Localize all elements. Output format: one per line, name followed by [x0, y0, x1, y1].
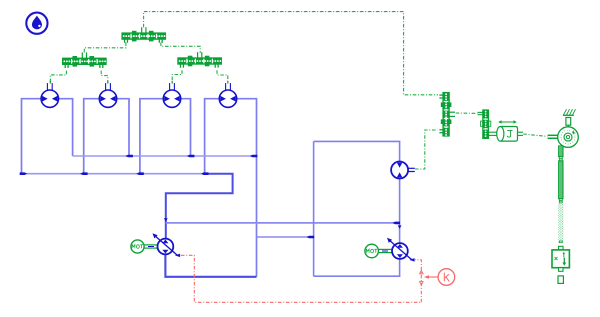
- rope end joint: [559, 241, 562, 243]
- junction arrow upper bus end at M4 drop: [250, 155, 258, 158]
- shaft link: GB2 left output to motor M1: [50, 71, 66, 84]
- wire: lower bus to pump P1 inlet staircase: [166, 174, 233, 239]
- hydraulic motor M4: [219, 83, 236, 107]
- wire: motor M2 left port to lower bus: [84, 99, 100, 174]
- gear reducer GB5: [478, 110, 491, 138]
- signal wire: junction riser to pump P2 control: [415, 260, 421, 303]
- junction arrow at lower bus start: [20, 172, 28, 175]
- shaft link: GB3 right output to motor M4: [217, 70, 228, 83]
- wire: motor M3 left port to lower bus: [140, 99, 163, 174]
- junction arrow M2 left on lower bus: [80, 172, 88, 175]
- wire: motor M2 right port to upper bus: [117, 99, 129, 156]
- shaft link: GB2 right output to motor M2: [101, 71, 108, 84]
- flow arrow above pump P1: [164, 218, 168, 222]
- wire: right loop top edge: [314, 141, 400, 161]
- flow arrow above pump P2: [398, 225, 402, 229]
- junction arrow supply line at loop right edge: [393, 222, 401, 225]
- shaft link: GB1 left output to GB2 input: [84, 42, 126, 53]
- signal arrow into junction: [424, 275, 429, 279]
- junction arrow M3 left on lower bus: [136, 172, 144, 175]
- hydraulic motor M2: [99, 83, 116, 107]
- shaft stub above motor M1: [49, 81, 51, 84]
- gain block K1: [438, 269, 455, 286]
- wire: upper bus: [73, 155, 257, 157]
- prime mover MOT2: [365, 244, 392, 258]
- signal split arrow down: [420, 282, 424, 285]
- variable displacement pump P1: [153, 233, 181, 257]
- wire: motor M1 right port to upper bus: [59, 99, 73, 156]
- wire: cross link to right loop left edge: [257, 236, 314, 238]
- ceiling anchor for winch: [563, 109, 576, 127]
- shaft stub above motor M3: [171, 81, 173, 84]
- signal wire: pump P1 control to bottom run: [181, 255, 421, 302]
- junction arrow M2 right on upper bus: [125, 155, 132, 158]
- wire: lower bus: [22, 173, 206, 175]
- shaft link: J1 to winch drum W1: [523, 134, 547, 136]
- wire: pump P1 supply long line to right loop: [166, 222, 400, 224]
- wire: motor M1 left port to lower bus: [22, 99, 42, 174]
- wire: motor M3 right port to upper bus: [181, 99, 191, 156]
- signal split arrow up: [420, 270, 424, 273]
- shaft stub above motor M4: [227, 81, 229, 84]
- wire: pump P1 outlet bottom run: [165, 254, 256, 277]
- gearbox GB4 (vertical, right side): [439, 93, 455, 137]
- wire: right loop bottom edge: [314, 259, 400, 276]
- gearbox GB1 (top splitter): [122, 27, 166, 43]
- shaft link: GB3 left output to motor M3: [172, 70, 182, 83]
- gearbox GB2 (left splitter): [63, 52, 107, 68]
- load mass MA1: [552, 246, 569, 271]
- wire: right loop left edge: [313, 141, 315, 276]
- wire: motor M4 right port down to pump P1 return: [237, 99, 257, 277]
- shaft link: GB1 input riser to GB4 top: [144, 12, 438, 95]
- signal wire: gain K1 to junction: [426, 276, 438, 278]
- junction arrow M4 left on lower bus: [201, 172, 209, 175]
- shaft link: GB4 right port to reducer GB5: [456, 112, 478, 114]
- variable displacement pump P2: [387, 238, 415, 262]
- rope segment RP2: [559, 161, 564, 199]
- rope joint: [559, 157, 562, 159]
- rope segment RP1: [559, 146, 564, 157]
- wire: motor M4 left port to lower bus: [205, 99, 220, 174]
- winch drum W1: [548, 127, 579, 148]
- hydraulic motor M3: [163, 83, 180, 107]
- junction arrow M3 right on upper bus: [187, 155, 195, 158]
- wire: right loop right edge middle: [399, 178, 401, 243]
- rotary inertia J1: [489, 120, 524, 141]
- gearbox GB3 (right splitter): [178, 52, 222, 68]
- shaft link: GB1 right output to GB3 input: [161, 42, 200, 53]
- shaft stub above motor M2: [107, 81, 109, 84]
- elastic rope segment RP3: [558, 204, 563, 243]
- prime mover MOT1: [131, 240, 158, 253]
- force end element FE1: [558, 276, 563, 284]
- hydraulic motor M5 in right loop: [391, 162, 415, 179]
- rope joint: [559, 199, 562, 201]
- hydraulic motor M1: [41, 83, 58, 107]
- fluid properties icon FP1: [26, 13, 47, 34]
- shaft link: motor M5 to GB4 bottom: [415, 130, 438, 169]
- junction arrow cross link at loop left edge: [307, 236, 315, 239]
